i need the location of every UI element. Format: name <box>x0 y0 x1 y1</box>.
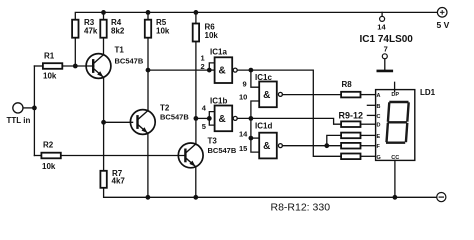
svg-text:R4: R4 <box>111 18 122 27</box>
wire display pin B stub <box>367 104 375 106</box>
svg-text:IC1a: IC1a <box>210 48 227 57</box>
ground pin 7 <box>378 54 392 71</box>
resistor R2 <box>34 153 185 159</box>
svg-text:4k7: 4k7 <box>112 176 126 185</box>
resistor R7 <box>100 171 436 198</box>
resistor R11 <box>341 143 376 149</box>
node junction rail R5 <box>146 10 151 15</box>
svg-text:R3: R3 <box>84 18 95 27</box>
node junction R6 column IC1b input <box>194 116 199 121</box>
svg-text:R2: R2 <box>43 141 54 150</box>
node junction IC1a out to pin9 <box>249 68 254 73</box>
svg-text:14: 14 <box>239 130 248 139</box>
svg-text:LD1: LD1 <box>420 88 436 97</box>
wire left input column <box>33 66 35 156</box>
svg-text:BC547B: BC547B <box>208 146 237 155</box>
node junction R3/R1/T1 base <box>73 64 78 69</box>
node junction T1 emitter to T2 base <box>101 120 106 125</box>
svg-text:R8: R8 <box>342 80 353 89</box>
resistor R12 <box>341 154 376 160</box>
wire IC1b input from R6 column <box>196 117 209 119</box>
wire IC1d input drop <box>251 118 258 152</box>
svg-text:47k: 47k <box>84 27 98 36</box>
svg-text:R8-R12: 330: R8-R12: 330 <box>271 202 331 214</box>
node junction IC1d pin14 <box>249 136 254 141</box>
svg-text:C: C <box>377 114 381 120</box>
transistor T2 <box>130 110 155 135</box>
svg-text:2: 2 <box>201 62 205 71</box>
svg-text:10k: 10k <box>42 162 56 171</box>
seven segment digit <box>387 102 409 143</box>
op-amp gate IC1a <box>215 57 238 83</box>
svg-text:5 V: 5 V <box>437 20 450 30</box>
svg-text:R6: R6 <box>205 22 216 31</box>
svg-text:D: D <box>377 123 381 129</box>
svg-text:IC1 74LS00: IC1 74LS00 <box>360 34 414 45</box>
display DP pin <box>394 82 396 91</box>
transistor T3 <box>178 143 203 168</box>
svg-text:R5: R5 <box>156 18 167 27</box>
svg-text:B: B <box>377 104 381 110</box>
wire IC1a output to G resistor <box>237 70 340 156</box>
svg-text:IC1c: IC1c <box>255 73 272 82</box>
svg-text:8k2: 8k2 <box>111 27 125 36</box>
resistor R1 <box>34 63 93 69</box>
node junction rail R6 <box>194 10 199 15</box>
wire T2 base <box>104 121 133 123</box>
node junction IC1b input tie <box>207 116 212 121</box>
svg-text:IC1b: IC1b <box>210 96 227 105</box>
wire display pin C stub <box>367 114 375 116</box>
svg-text:T3: T3 <box>208 137 218 146</box>
wire IC1c output to R8 <box>283 94 341 96</box>
display LD1 box <box>376 90 415 161</box>
input terminal TTL in <box>13 103 35 113</box>
svg-text:4: 4 <box>202 104 207 113</box>
resistor R5 <box>145 12 151 110</box>
svg-text:BC547B: BC547B <box>115 56 144 65</box>
wire IC1a input from T2 collector <box>148 69 209 71</box>
svg-text:T1: T1 <box>115 45 125 54</box>
wire IC1b pin5 jog <box>209 118 213 125</box>
wire T2 emitter down <box>147 133 149 197</box>
op-amp gate IC1b <box>215 106 238 132</box>
svg-text:14: 14 <box>377 23 386 32</box>
svg-text:5: 5 <box>202 122 206 131</box>
node pin 14 supply stub <box>380 12 385 21</box>
svg-text:10k: 10k <box>43 72 57 81</box>
svg-text:IC1d: IC1d <box>255 122 272 131</box>
svg-text:DP: DP <box>391 92 399 98</box>
wire CC pin to rail <box>394 160 396 197</box>
svg-text:&: & <box>263 90 270 101</box>
svg-text:G: G <box>377 155 381 161</box>
resistor R10 <box>341 133 376 139</box>
node junction CC rail <box>393 195 398 200</box>
node junction rail T3 emitter <box>193 195 198 200</box>
svg-text:A: A <box>377 93 381 99</box>
resistor R6 <box>193 12 199 143</box>
op-amp gate IC1d <box>259 133 282 159</box>
node junction TTL column <box>32 106 37 111</box>
resistor R4 <box>100 12 106 54</box>
svg-text:BC547B: BC547B <box>160 112 189 121</box>
svg-text:F: F <box>377 144 381 150</box>
svg-text:R9-12: R9-12 <box>339 110 364 120</box>
resistor R9 <box>341 121 376 127</box>
svg-text:&: & <box>263 141 270 152</box>
node junction rail T2 emitter <box>146 195 151 200</box>
wire IC1a pin1 jog <box>209 63 213 70</box>
wire IC1c pin9 drop <box>251 70 258 87</box>
svg-text:&: & <box>219 114 226 125</box>
svg-text:R1: R1 <box>44 52 55 61</box>
node junction E branch <box>324 143 329 148</box>
svg-text:9: 9 <box>243 80 247 89</box>
ground terminal minus <box>437 193 446 202</box>
wire IC1d pin14 <box>251 137 258 139</box>
node junction IC1a input tie <box>207 68 212 73</box>
node junction T2 collector <box>146 68 151 73</box>
wire E branch <box>327 135 340 145</box>
svg-text:TTL in: TTL in <box>7 116 31 125</box>
svg-text:10: 10 <box>239 93 247 102</box>
wire T3 emitter down <box>195 167 197 198</box>
svg-text:T2: T2 <box>160 103 170 112</box>
svg-text:7: 7 <box>384 45 388 54</box>
svg-text:&: & <box>219 66 226 77</box>
node junction rail R4 <box>101 10 106 15</box>
wire top supply rail <box>75 12 437 18</box>
wire IC1b pin4 jog <box>209 112 213 119</box>
resistor R8 <box>341 92 376 98</box>
transistor T1 <box>86 54 111 79</box>
node junction IC1b out branch <box>249 116 254 121</box>
svg-text:E: E <box>377 134 381 140</box>
svg-text:10k: 10k <box>205 31 219 40</box>
wire IC1a pin2 <box>209 69 213 71</box>
resistor R3 <box>72 20 78 66</box>
wire IC1c pin10 rise <box>251 101 258 118</box>
svg-text:10k: 10k <box>156 27 170 36</box>
wire IC1d output to F resistor <box>283 145 341 147</box>
wire T1 emitter column <box>103 77 105 170</box>
op-amp gate IC1c <box>259 82 282 108</box>
svg-text:15: 15 <box>239 144 247 153</box>
power terminal +5V <box>437 8 447 18</box>
wire IC1b output to D resistor <box>237 118 340 124</box>
